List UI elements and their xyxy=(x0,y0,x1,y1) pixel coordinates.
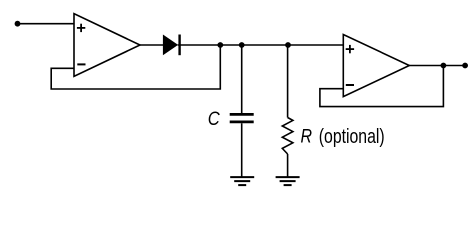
wire xyxy=(51,45,220,89)
wire xyxy=(140,44,164,46)
ground xyxy=(230,177,254,185)
wire xyxy=(287,45,289,118)
node C xyxy=(285,42,291,48)
op-amp U1 xyxy=(74,14,140,77)
output terminal node xyxy=(462,63,468,69)
wire xyxy=(178,44,344,46)
svg-text:C: C xyxy=(208,108,221,130)
wire xyxy=(241,45,243,114)
diode D1 xyxy=(163,35,180,56)
op-amp U2 xyxy=(343,35,409,97)
node D xyxy=(441,63,447,69)
svg-text:R: R xyxy=(301,125,313,147)
ground xyxy=(276,177,300,185)
capacitor C xyxy=(230,114,254,122)
wire xyxy=(287,154,289,177)
node B xyxy=(239,42,245,48)
wire xyxy=(241,123,243,177)
wire xyxy=(409,65,465,67)
node A xyxy=(217,42,223,48)
wire xyxy=(320,66,444,107)
resistor R xyxy=(282,118,293,155)
svg-text:(optional): (optional) xyxy=(319,125,385,147)
input terminal node xyxy=(15,21,21,27)
wire xyxy=(18,23,75,25)
